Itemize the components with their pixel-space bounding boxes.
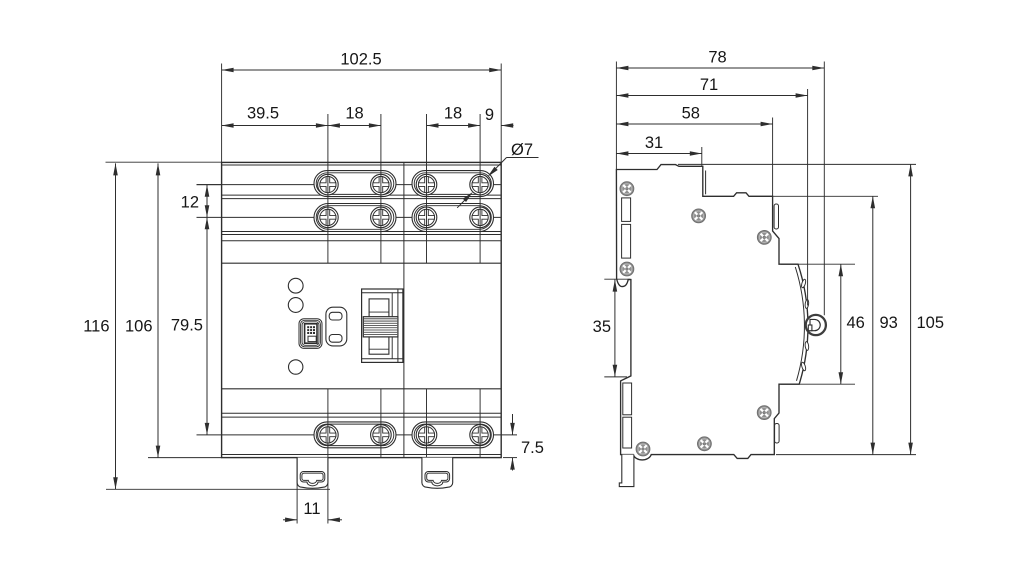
svg-text:102.5: 102.5 <box>340 51 381 69</box>
svg-text:116: 116 <box>83 318 109 336</box>
svg-text:35: 35 <box>593 318 611 336</box>
svg-text:18: 18 <box>444 105 462 123</box>
svg-text:71: 71 <box>700 76 718 94</box>
svg-text:18: 18 <box>345 105 363 123</box>
svg-text:93: 93 <box>880 314 898 332</box>
svg-text:9: 9 <box>485 106 494 124</box>
svg-text:58: 58 <box>682 105 700 123</box>
svg-text:31: 31 <box>645 134 663 152</box>
svg-text:39.5: 39.5 <box>247 105 279 123</box>
svg-text:106: 106 <box>125 318 153 336</box>
svg-text:46: 46 <box>847 314 865 332</box>
svg-text:11: 11 <box>303 500 320 518</box>
svg-text:78: 78 <box>708 49 726 67</box>
svg-text:12: 12 <box>181 194 199 212</box>
svg-text:Ø7: Ø7 <box>511 141 533 159</box>
svg-text:79.5: 79.5 <box>171 317 203 335</box>
svg-text:7.5: 7.5 <box>521 439 544 457</box>
svg-text:105: 105 <box>917 314 945 332</box>
